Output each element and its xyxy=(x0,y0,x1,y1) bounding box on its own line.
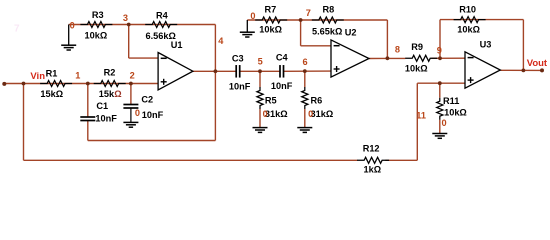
svg-text:15kΩ: 15kΩ xyxy=(40,89,63,99)
label R5 xyxy=(265,96,277,106)
svg-text:R2: R2 xyxy=(104,68,116,78)
svg-text:10nF: 10nF xyxy=(95,114,117,124)
resistor R9 xyxy=(405,55,437,61)
resistor R11 xyxy=(437,98,443,120)
label C2 xyxy=(141,95,153,105)
wire: U1 output row to C3 xyxy=(193,70,236,72)
value R7 10k xyxy=(259,25,282,35)
wire: R5 lower lead to ground xyxy=(259,109,261,128)
label R1 xyxy=(46,68,58,78)
wire: U3 output to Vout terminal xyxy=(500,69,542,71)
junction node 2 / C2 xyxy=(129,82,133,86)
wire: C3 to node5 to C4 xyxy=(240,70,280,72)
svg-text:R9: R9 xyxy=(411,42,423,52)
capacitor C4 xyxy=(280,65,284,78)
wire: vertical up to U3 plus row xyxy=(416,83,418,160)
label R9 xyxy=(411,42,423,52)
svg-text:10kΩ: 10kΩ xyxy=(259,25,282,35)
op-amp U1 xyxy=(158,53,193,90)
wire: bottom rail right of R12 xyxy=(385,159,417,161)
wire: R6 lower lead to ground xyxy=(304,109,306,128)
label R12 xyxy=(363,144,380,154)
svg-text:10nF: 10nF xyxy=(229,82,251,92)
value C3 10nF xyxy=(229,82,251,92)
svg-text:10kΩ: 10kΩ xyxy=(405,64,428,74)
node 0 label (R6) xyxy=(308,109,313,119)
svg-text:6: 6 xyxy=(303,57,308,67)
wire: stage1 top rail xyxy=(69,24,216,26)
label R6 xyxy=(311,96,323,106)
value R9 10k xyxy=(405,64,428,74)
junction node 5 xyxy=(258,69,262,73)
wire: C1 feedback bottom xyxy=(88,140,216,142)
node 6 label xyxy=(303,57,308,67)
node 2 label xyxy=(130,71,135,81)
junction node 6 xyxy=(303,69,307,73)
svg-text:0: 0 xyxy=(263,109,268,119)
resistor R4 xyxy=(145,22,177,28)
wire: U2 output to R9 xyxy=(369,57,405,59)
label R3 xyxy=(92,10,104,20)
ground (C2, node 0) xyxy=(123,122,138,127)
resistor R1 xyxy=(40,81,72,87)
value R8 5.65k xyxy=(312,26,342,36)
svg-text:Vout: Vout xyxy=(527,58,548,69)
label C3 xyxy=(232,53,244,63)
wire: C1 upper lead xyxy=(87,84,89,118)
wire: C2 upper lead xyxy=(130,84,132,105)
svg-text:0: 0 xyxy=(135,108,140,118)
svg-text:0: 0 xyxy=(70,21,75,31)
resistor R10 xyxy=(454,17,486,23)
capacitor C1 xyxy=(80,117,95,121)
svg-text:2: 2 xyxy=(130,71,135,81)
wire: R6 upper lead xyxy=(304,71,306,87)
wire: left vertical down to bottom rail xyxy=(23,84,25,161)
junction node 7 xyxy=(299,18,303,22)
wire: R10 rail xyxy=(440,19,523,21)
resistor R7 xyxy=(255,17,287,23)
svg-text:1: 1 xyxy=(75,70,80,80)
wire: R5 upper lead xyxy=(259,71,261,87)
svg-text:9: 9 xyxy=(437,46,442,56)
value R10 10k xyxy=(457,25,480,35)
value R3 10k xyxy=(85,31,108,41)
svg-text:R11: R11 xyxy=(443,96,459,106)
junction node 4 xyxy=(214,69,218,73)
value R1 15k xyxy=(40,89,63,99)
op-amp U3 xyxy=(465,52,500,88)
wire: input row Vin to U1 plus xyxy=(4,83,158,85)
label C4 xyxy=(276,53,289,63)
ground (stage2 rail, node 0) xyxy=(240,20,255,37)
label R2 xyxy=(104,68,116,78)
svg-text:C2: C2 xyxy=(141,95,153,105)
svg-text:R3: R3 xyxy=(92,10,104,20)
label R8 xyxy=(323,5,335,15)
wire: C2 lower lead xyxy=(130,108,132,123)
node 7 label xyxy=(306,8,311,18)
wire: node9 vertical to R10 rail xyxy=(439,20,441,59)
svg-text:1kΩ: 1kΩ xyxy=(364,164,382,174)
wire: stage2 top rail xyxy=(247,19,387,21)
svg-text:C3: C3 xyxy=(232,53,244,63)
junction node 8 xyxy=(386,56,390,60)
wire: node7 vertical and U2 minus stub xyxy=(301,20,331,46)
junction node 9 xyxy=(438,56,442,60)
svg-text:5.65kΩ: 5.65kΩ xyxy=(312,26,342,36)
svg-text:R5: R5 xyxy=(265,96,277,106)
resistor R6 xyxy=(302,87,308,109)
svg-text:Vin: Vin xyxy=(30,71,45,82)
wire: node3 vertical and U1 minus stub xyxy=(129,25,158,59)
resistor R2 xyxy=(94,81,126,87)
ground (R11, node 0) xyxy=(432,134,447,139)
wire: U3 plus row xyxy=(417,82,465,84)
ground (stage1 rail, node 0) xyxy=(61,25,76,51)
ground (R5, node 0) xyxy=(253,128,268,133)
svg-text:0: 0 xyxy=(308,109,313,119)
op-amp U2 xyxy=(331,40,369,77)
junction Vin row / left vertical xyxy=(22,82,26,86)
svg-text:R4: R4 xyxy=(156,10,169,20)
node 0 label (stage2 rail) xyxy=(250,11,255,21)
svg-text:15k: 15k xyxy=(99,89,115,99)
svg-text:4: 4 xyxy=(218,36,224,46)
label C1 xyxy=(96,101,108,111)
junction Vout / R10 vertical xyxy=(522,69,526,73)
value C4 10nF xyxy=(271,81,293,91)
node 3 label xyxy=(123,13,128,23)
wire: R11 upper lead xyxy=(439,83,441,98)
node 11 label xyxy=(416,111,426,121)
svg-text:5: 5 xyxy=(258,57,263,67)
svg-text:7: 7 xyxy=(306,8,311,18)
resistor R5 xyxy=(257,87,263,109)
value R6 31k xyxy=(311,109,334,119)
capacitor C3 xyxy=(236,65,240,78)
value C2 10nF xyxy=(142,110,164,120)
svg-text:31kΩ: 31kΩ xyxy=(311,109,334,119)
wire: R11 lower lead to ground xyxy=(439,120,441,134)
svg-text:C1: C1 xyxy=(96,101,108,111)
node 0 label (R11) xyxy=(442,118,447,128)
terminal dot Vout output xyxy=(540,68,544,72)
wire: node4 vertical xyxy=(214,25,216,141)
node 5 label xyxy=(258,57,263,67)
svg-text:10kΩ: 10kΩ xyxy=(457,25,480,35)
svg-text:U2: U2 xyxy=(345,27,357,37)
svg-text:R1: R1 xyxy=(46,68,58,78)
capacitor C2 xyxy=(123,105,138,109)
ground (R6, node 0) xyxy=(297,128,312,133)
resistor R8 xyxy=(312,17,344,23)
svg-text:10nF: 10nF xyxy=(142,110,164,120)
label U3 xyxy=(480,40,492,50)
svg-text:R10: R10 xyxy=(459,5,476,15)
wire: C1 lower lead xyxy=(87,121,89,141)
label U1 xyxy=(171,40,183,50)
svg-text:C4: C4 xyxy=(276,53,289,63)
svg-text:R12: R12 xyxy=(363,144,380,154)
svg-text:R8: R8 xyxy=(323,5,335,15)
node 0 label (stage1 rail) xyxy=(70,21,75,31)
wire: R9 to U3 minus xyxy=(431,57,465,59)
wire: bottom rail left of R12 xyxy=(24,159,358,161)
label R7 xyxy=(265,5,277,15)
output label Vout xyxy=(527,58,548,69)
wire: node8 vertical xyxy=(386,20,388,58)
svg-text:0: 0 xyxy=(442,118,447,128)
value R4 6.56k xyxy=(146,31,176,41)
label R10 xyxy=(459,5,476,15)
value R2 15k xyxy=(99,89,122,99)
terminal dot Vin input xyxy=(2,82,6,86)
svg-text:11: 11 xyxy=(416,111,426,121)
label U2 xyxy=(345,27,357,37)
node 0 label (C2) xyxy=(135,108,140,118)
resistor R3 xyxy=(80,22,112,28)
label R4 xyxy=(156,10,169,20)
resistor R12 xyxy=(357,157,389,163)
svg-text:0: 0 xyxy=(250,11,255,21)
svg-text:10nF: 10nF xyxy=(271,81,293,91)
node 8 label xyxy=(395,45,400,55)
svg-text:8: 8 xyxy=(395,45,400,55)
svg-text:31kΩ: 31kΩ xyxy=(265,109,288,119)
value R5 31k xyxy=(265,109,288,119)
value R12 1k xyxy=(364,164,382,174)
wire: C4 to node6 to U2 plus xyxy=(284,70,332,72)
label R11 xyxy=(443,96,459,106)
svg-text:R7: R7 xyxy=(265,5,277,15)
value C1 10nF xyxy=(95,114,117,124)
input label Vin xyxy=(30,71,45,82)
junction node 1 / C1 xyxy=(86,82,90,86)
node 9 label xyxy=(437,46,442,56)
node 4 label xyxy=(218,36,224,46)
svg-text:U1: U1 xyxy=(171,40,183,50)
node 1 label xyxy=(75,70,80,80)
svg-text:10kΩ: 10kΩ xyxy=(85,31,108,41)
svg-text:Ω: Ω xyxy=(114,89,121,99)
svg-text:7: 7 xyxy=(14,24,20,35)
svg-text:R6: R6 xyxy=(311,96,323,106)
svg-text:10kΩ: 10kΩ xyxy=(444,108,467,118)
value R11 10k xyxy=(444,108,467,118)
junction node 3 xyxy=(127,23,131,27)
wire: R10 right vertical xyxy=(522,20,524,71)
node 0 label (R5) xyxy=(263,109,268,119)
junction R11 / U3 plus row xyxy=(438,81,442,85)
svg-text:3: 3 xyxy=(123,13,128,23)
svg-text:U3: U3 xyxy=(480,40,492,50)
